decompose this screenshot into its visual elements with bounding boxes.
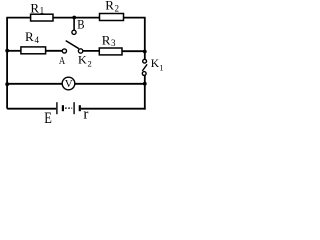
wire row2 switch to R3	[83, 50, 100, 52]
node B junction dot	[72, 16, 76, 20]
switch K1 lever	[142, 64, 147, 71]
wire row3 right	[75, 83, 145, 85]
battery plate short 1	[62, 105, 64, 111]
wire bottom left to battery	[7, 108, 56, 110]
wire left vertical	[6, 18, 8, 109]
switch K1 bottom contact	[142, 72, 146, 76]
node junction dot right row2	[143, 50, 147, 54]
node B terminal contact	[72, 30, 76, 34]
battery plate long 1	[56, 102, 58, 114]
wire right vertical lower	[144, 75, 146, 109]
voltmeter V body	[62, 77, 75, 90]
switch K2 right contact	[78, 49, 82, 53]
resistor R3	[99, 48, 122, 55]
resistor R4	[21, 47, 46, 54]
node junction dot right row3	[143, 82, 147, 86]
svg-text:V: V	[65, 78, 73, 90]
resistor R1	[31, 14, 53, 21]
svg-text:r: r	[83, 107, 88, 123]
resistor R2	[100, 14, 124, 21]
node junction dot left row2	[5, 49, 9, 53]
wire row2 right	[122, 50, 146, 52]
wire top segment right	[124, 17, 146, 19]
wire bottom battery to right	[81, 108, 146, 110]
wire row2 to switch K2	[46, 50, 63, 52]
node junction dot left row3	[5, 82, 9, 86]
wire top segment left	[6, 17, 31, 19]
wire row2 left	[7, 50, 21, 52]
wire right vertical upper	[144, 18, 146, 60]
wire top segment middle	[53, 17, 100, 19]
svg-text:E: E	[44, 110, 52, 126]
svg-text:B: B	[77, 16, 85, 31]
switch K2 left contact (A)	[62, 49, 66, 53]
battery plate short 2	[79, 105, 81, 111]
svg-text:A: A	[59, 55, 65, 67]
switch K1 top contact	[143, 59, 147, 63]
battery cell dots	[65, 107, 72, 109]
battery plate long 2	[73, 102, 75, 114]
wire row3 left	[7, 83, 62, 85]
switch K2 lever	[66, 41, 79, 49]
wire node B stub	[73, 18, 75, 31]
